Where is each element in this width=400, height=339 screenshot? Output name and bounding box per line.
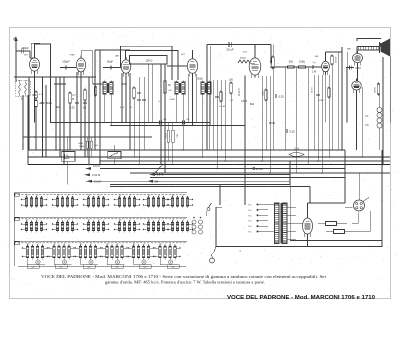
- wire top pin: [192, 50, 194, 59]
- wire plate loop V1: [35, 44, 51, 123]
- svg-text:15: 15: [26, 219, 28, 221]
- wire bus: [50, 122, 210, 124]
- wire rail: [94, 50, 96, 150]
- svg-text:0.5M: 0.5M: [319, 100, 324, 102]
- bus: [28, 156, 390, 158]
- svg-text:500: 500: [32, 267, 35, 269]
- resistor R2: [69, 92, 77, 105]
- resistor R19: [94, 86, 97, 97]
- wire: [287, 222, 296, 224]
- page border frame: [10, 28, 391, 299]
- output transformer T3: [357, 43, 380, 53]
- wire: [261, 76, 263, 161]
- wire: [42, 77, 44, 157]
- wire: [63, 77, 65, 165]
- svg-text:4: 4: [67, 195, 68, 197]
- wire: [357, 213, 359, 224]
- svg-text:50kΩ: 50kΩ: [164, 134, 166, 139]
- bus B+: [28, 149, 345, 151]
- svg-text:270 Ω: 270 Ω: [269, 123, 275, 125]
- wire: [55, 77, 57, 150]
- capacitor C21: [159, 121, 161, 125]
- svg-text:4: 4: [170, 243, 171, 245]
- antenna coil L1 box: [16, 80, 31, 96]
- svg-text:4: 4: [182, 195, 183, 197]
- wire: [129, 73, 131, 150]
- wire: [192, 51, 194, 59]
- svg-text:0.5 M: 0.5 M: [241, 101, 247, 103]
- svg-text:F.C.: F.C.: [248, 221, 252, 223]
- svg-text:4: 4: [36, 195, 37, 197]
- svg-text:50μF: 50μF: [107, 60, 113, 64]
- wire box outer: [121, 46, 173, 80]
- wire coupling: [167, 65, 187, 67]
- potentiometer P4: [86, 179, 101, 183]
- wire: [337, 52, 339, 150]
- potentiometer P5: [149, 173, 164, 177]
- mains cord and plug: [210, 247, 216, 263]
- svg-text:500: 500: [172, 267, 175, 269]
- wire: [113, 145, 115, 152]
- svg-text:1500: 1500: [269, 59, 271, 65]
- junction: [138, 164, 140, 166]
- resistor R18: [172, 130, 174, 142]
- wire: [220, 80, 222, 150]
- svg-text:gamme d'onda. MF: 465 kc/s. Po: gamme d'onda. MF: 465 kc/s. Potenza d'us…: [105, 280, 265, 285]
- svg-text:32kΩ: 32kΩ: [261, 90, 263, 96]
- svg-text:15: 15: [88, 219, 90, 221]
- switch lever: [206, 203, 212, 216]
- wire rail: [164, 64, 166, 173]
- resistor R6: [229, 80, 234, 95]
- wire: [230, 93, 232, 150]
- terminal box: [83, 265, 95, 269]
- wire left: [27, 150, 29, 165]
- svg-text:100μF: 100μF: [62, 60, 70, 64]
- wire: [219, 185, 221, 206]
- wire: [104, 96, 106, 123]
- wire: [317, 75, 319, 161]
- wire bus left: [24, 136, 153, 138]
- svg-text:0.5 M: 0.5 M: [157, 173, 164, 177]
- wire: [216, 80, 218, 169]
- bus: [86, 180, 290, 182]
- wire: [69, 103, 71, 150]
- junction: [224, 160, 226, 162]
- svg-text:50kΩ: 50kΩ: [79, 146, 84, 148]
- wire plate top: [207, 44, 271, 46]
- svg-text:0.25: 0.25: [289, 130, 295, 134]
- svg-text:30 kΩ: 30 kΩ: [373, 87, 375, 93]
- wire: [22, 95, 24, 150]
- wire coupling: [60, 67, 76, 69]
- svg-text:F.C.: F.C.: [248, 226, 252, 228]
- wire: [208, 96, 210, 151]
- svg-text:4: 4: [37, 243, 38, 245]
- svg-text:0.5 M: 0.5 M: [256, 167, 263, 171]
- capacitor C6: [58, 83, 62, 85]
- wire: [325, 72, 327, 123]
- svg-text:15: 15: [26, 195, 28, 197]
- wire: [176, 96, 178, 123]
- svg-text:0.5 M: 0.5 M: [219, 106, 225, 108]
- hank coil L3: [377, 108, 382, 129]
- svg-text:F.C.: F.C.: [248, 232, 252, 234]
- wire: [269, 76, 271, 173]
- terminal box: [27, 265, 39, 269]
- svg-text:4: 4: [182, 219, 183, 221]
- resistor R3: [84, 89, 87, 102]
- capacitor C15: [215, 96, 219, 98]
- wire: [290, 240, 382, 242]
- wire top cap V1: [30, 43, 32, 57]
- svg-text:0.25: 0.25: [278, 95, 284, 99]
- fuse/switch 2: [326, 211, 370, 234]
- svg-text:15: 15: [53, 243, 55, 245]
- svg-text:15: 15: [119, 195, 121, 197]
- junction: [216, 168, 218, 170]
- bus: [130, 172, 390, 174]
- wire: [84, 100, 86, 157]
- wire: [125, 74, 127, 123]
- capacitor C3: [41, 102, 45, 104]
- wire: [67, 137, 69, 152]
- grid coil: [238, 60, 250, 63]
- junction: [183, 149, 185, 151]
- capacitor C4: [62, 60, 70, 70]
- capacitor C17: [286, 129, 295, 134]
- svg-text:100 Ω: 100 Ω: [146, 60, 153, 63]
- bus: [28, 164, 390, 166]
- wire: [268, 204, 275, 206]
- vacuum tube V4: [187, 56, 197, 76]
- wire: [284, 67, 286, 150]
- wire: [86, 137, 88, 141]
- strip left rail: [13, 193, 15, 267]
- wire coupling: [103, 67, 121, 69]
- svg-text:0.15 M: 0.15 M: [237, 88, 239, 95]
- wire: [358, 173, 360, 200]
- svg-text:F.C.: F.C.: [248, 215, 252, 217]
- svg-text:VOCE DEL PADRONE - Mod. MARCON: VOCE DEL PADRONE - Mod. MARCONI 1706 e 1…: [41, 274, 327, 279]
- svg-text:15: 15: [148, 195, 150, 197]
- wire: [192, 74, 194, 126]
- wire: [167, 123, 169, 131]
- wire: [45, 85, 47, 157]
- band switch drum section 2 (coil strip): [14, 217, 193, 232]
- wire: [147, 64, 149, 123]
- svg-text:5kΩ: 5kΩ: [250, 104, 254, 106]
- wire: [138, 77, 140, 165]
- junction: [269, 172, 271, 174]
- wire: [216, 206, 222, 208]
- svg-text:0.03: 0.03: [355, 66, 361, 70]
- junction: [88, 164, 90, 166]
- wire top cap V5: [254, 45, 256, 58]
- junction: [382, 164, 384, 166]
- svg-text:500: 500: [289, 61, 294, 64]
- wire: [28, 77, 30, 150]
- junction: [63, 164, 65, 166]
- wire: [356, 90, 358, 150]
- vacuum tube V2: [76, 56, 85, 75]
- wire: [35, 107, 37, 151]
- capacitor C18: [316, 94, 320, 96]
- svg-text:0.5 M: 0.5 M: [94, 179, 101, 183]
- junction: [261, 160, 263, 162]
- wire: [309, 187, 311, 204]
- wire: [389, 57, 391, 123]
- wire: [29, 51, 31, 58]
- wire: [307, 237, 309, 247]
- capacitor C8: [70, 102, 79, 109]
- wire antenna down: [15, 51, 17, 82]
- wire: [344, 150, 346, 203]
- svg-text:4: 4: [158, 195, 159, 197]
- svg-text:100pF: 100pF: [21, 46, 29, 50]
- junction: [244, 149, 246, 151]
- resistor R16: [90, 141, 92, 148]
- wire box middle: [126, 51, 179, 81]
- svg-text:50kΩ: 50kΩ: [78, 143, 83, 145]
- wire: [121, 73, 123, 123]
- resistor R14: [331, 55, 336, 66]
- svg-text:30kΩ2: 30kΩ2: [240, 58, 247, 60]
- potentiometer P6: [147, 179, 159, 183]
- junction: [317, 160, 319, 162]
- svg-text:VOCE DEL PADRONE - Mod. MARCON: VOCE DEL PADRONE - Mod. MARCONI 1706 e 1…: [227, 295, 375, 301]
- svg-text:4: 4: [129, 195, 130, 197]
- junction: [28, 136, 30, 138]
- wire: [143, 77, 145, 150]
- svg-text:15: 15: [148, 219, 150, 221]
- wire: [321, 75, 323, 173]
- wire: [187, 74, 189, 123]
- wire grid bus: [14, 76, 96, 78]
- resistor R17: [167, 130, 169, 142]
- wire: [76, 72, 78, 123]
- capacitor C20: [312, 65, 316, 74]
- svg-text:25 μF: 25 μF: [227, 48, 234, 52]
- resistor R8: [265, 89, 268, 102]
- bus: [150, 177, 345, 179]
- svg-text:10kΩ: 10kΩ: [299, 61, 305, 64]
- capacitor C1 100pF: [16, 46, 30, 54]
- wire: [341, 47, 343, 150]
- mains voltage selector: [354, 198, 370, 212]
- wire: [308, 202, 346, 204]
- wire: [95, 49, 130, 51]
- wire: [272, 68, 274, 150]
- wire: [296, 67, 298, 173]
- wire: [59, 77, 61, 157]
- resistor R12: [377, 83, 380, 96]
- terminal box: [139, 265, 151, 269]
- resistor R1: [35, 91, 44, 100]
- resistor R15: [86, 141, 88, 148]
- tone control 2M: [289, 153, 304, 157]
- wire: [331, 64, 333, 150]
- strip bottom rail: [18, 266, 186, 268]
- wire loop bottom: [216, 150, 382, 247]
- svg-text:0.25: 0.25: [70, 108, 75, 110]
- switch S1: [156, 165, 162, 172]
- junction: [133, 156, 135, 158]
- wire grid: [270, 66, 322, 68]
- wire: [110, 96, 112, 126]
- resistor R13: [269, 56, 274, 70]
- wire: [287, 214, 296, 216]
- capacitor C5: [54, 83, 58, 85]
- capacitor C11: [137, 99, 141, 101]
- junction: [341, 149, 343, 151]
- bus: [100, 168, 345, 170]
- wire: [224, 80, 226, 161]
- svg-text:15: 15: [57, 195, 59, 197]
- wire: [80, 72, 82, 150]
- svg-text:500: 500: [88, 267, 91, 269]
- potentiometer P7: [249, 167, 263, 171]
- IF transformer T2: [201, 81, 211, 96]
- wire speaker frame: [357, 39, 381, 42]
- power transformer T4: [275, 203, 288, 244]
- RF coil L2: [103, 81, 113, 96]
- wire: [67, 161, 69, 184]
- svg-text:0.31 M: 0.31 M: [92, 173, 101, 177]
- wire: [307, 203, 309, 216]
- wire: [152, 174, 290, 176]
- wire: [289, 185, 291, 241]
- loudspeaker: [380, 39, 391, 57]
- svg-text:4: 4: [36, 219, 37, 221]
- svg-text:15: 15: [88, 195, 90, 197]
- bus: [100, 160, 390, 162]
- terminal box: [55, 265, 67, 269]
- svg-text:0.5 M: 0.5 M: [93, 164, 100, 168]
- wire: [196, 74, 198, 123]
- wire: [250, 62, 255, 64]
- svg-text:4: 4: [64, 243, 65, 245]
- svg-text:F.C.: F.C.: [248, 210, 252, 212]
- junction: [361, 156, 363, 158]
- svg-text:1 M: 1 M: [312, 70, 316, 74]
- wire: [345, 206, 353, 208]
- junction: [202, 156, 204, 158]
- wire: [206, 45, 208, 151]
- svg-text:4: 4: [117, 243, 118, 245]
- wire: [172, 123, 174, 131]
- svg-text:4: 4: [98, 195, 99, 197]
- wire drop: [244, 150, 246, 205]
- bus: [110, 186, 310, 188]
- tuning capacitor gang b: [108, 152, 121, 159]
- svg-text:500: 500: [60, 267, 63, 269]
- svg-text:15: 15: [172, 219, 174, 221]
- terminal box: [111, 265, 123, 269]
- svg-text:4: 4: [98, 219, 99, 221]
- svg-text:15: 15: [172, 195, 174, 197]
- wire plate loop V2: [81, 51, 102, 84]
- wire: [272, 45, 274, 56]
- wire: [345, 68, 347, 123]
- terminal strip: [248, 204, 268, 234]
- capacitor C14 25uF: [227, 42, 234, 52]
- wire: [307, 67, 309, 165]
- wire: [270, 45, 272, 64]
- svg-text:5kΩ: 5kΩ: [56, 107, 60, 109]
- antenna: [13, 37, 18, 52]
- resistor R4: [133, 87, 142, 100]
- band switch drum section 1 (coil strip): [14, 193, 193, 208]
- resistor R1b: [35, 99, 44, 108]
- vacuum tube V1: [30, 55, 40, 74]
- svg-text:50kΩ: 50kΩ: [121, 84, 127, 86]
- svg-text:5kΩ: 5kΩ: [176, 134, 178, 138]
- capacitor C7: [62, 83, 66, 85]
- wire: [296, 222, 303, 224]
- svg-text:4: 4: [129, 219, 130, 221]
- svg-text:4: 4: [158, 219, 159, 221]
- wire: [328, 75, 330, 157]
- wire: [152, 64, 154, 123]
- resistor R9: [288, 61, 295, 69]
- capacitor C2: [33, 94, 37, 96]
- resistor R11: [328, 87, 331, 99]
- svg-text:4: 4: [67, 219, 68, 221]
- wire rail: [99, 50, 101, 165]
- resistor R5: [164, 80, 172, 95]
- wire: [287, 206, 296, 208]
- wire: [357, 63, 359, 81]
- capacitor C16: [275, 94, 284, 99]
- tuning capacitor gang a: [62, 152, 75, 162]
- wire: [346, 52, 348, 123]
- wire: [88, 77, 90, 165]
- wire rail: [160, 64, 162, 165]
- svg-text:15: 15: [159, 243, 161, 245]
- vacuum tube V9 rectifier: [303, 216, 313, 238]
- wire: [265, 76, 267, 150]
- svg-text:4: 4: [90, 243, 91, 245]
- svg-text:15: 15: [133, 243, 135, 245]
- capacitor C19 0.03: [346, 66, 361, 70]
- wire bus: [110, 125, 245, 127]
- IF transformer T1: [175, 81, 185, 96]
- vacuum tube V5: [249, 55, 261, 78]
- wire: [27, 95, 29, 150]
- svg-text:kΩ: kΩ: [169, 90, 172, 92]
- vacuum tube V3: [121, 57, 131, 76]
- svg-text:15kΩ: 15kΩ: [169, 99, 175, 101]
- wire: [113, 159, 115, 165]
- svg-text:15: 15: [80, 243, 82, 245]
- svg-text:5kΩ: 5kΩ: [94, 145, 98, 147]
- wire: [34, 72, 36, 123]
- svg-text:0.1 M: 0.1 M: [310, 87, 312, 93]
- vacuum tube V6: [322, 59, 330, 75]
- junction: [329, 156, 331, 158]
- svg-text:15: 15: [27, 243, 29, 245]
- oscillator padder box: [130, 56, 168, 65]
- svg-text:15: 15: [106, 243, 108, 245]
- svg-text:500 Ω: 500 Ω: [334, 57, 336, 63]
- wire: [244, 76, 246, 206]
- vacuum tube V7 output: [353, 51, 363, 66]
- svg-text:500: 500: [144, 267, 147, 269]
- wire: [212, 80, 214, 150]
- bus: [110, 184, 290, 186]
- svg-text:M: M: [72, 99, 74, 101]
